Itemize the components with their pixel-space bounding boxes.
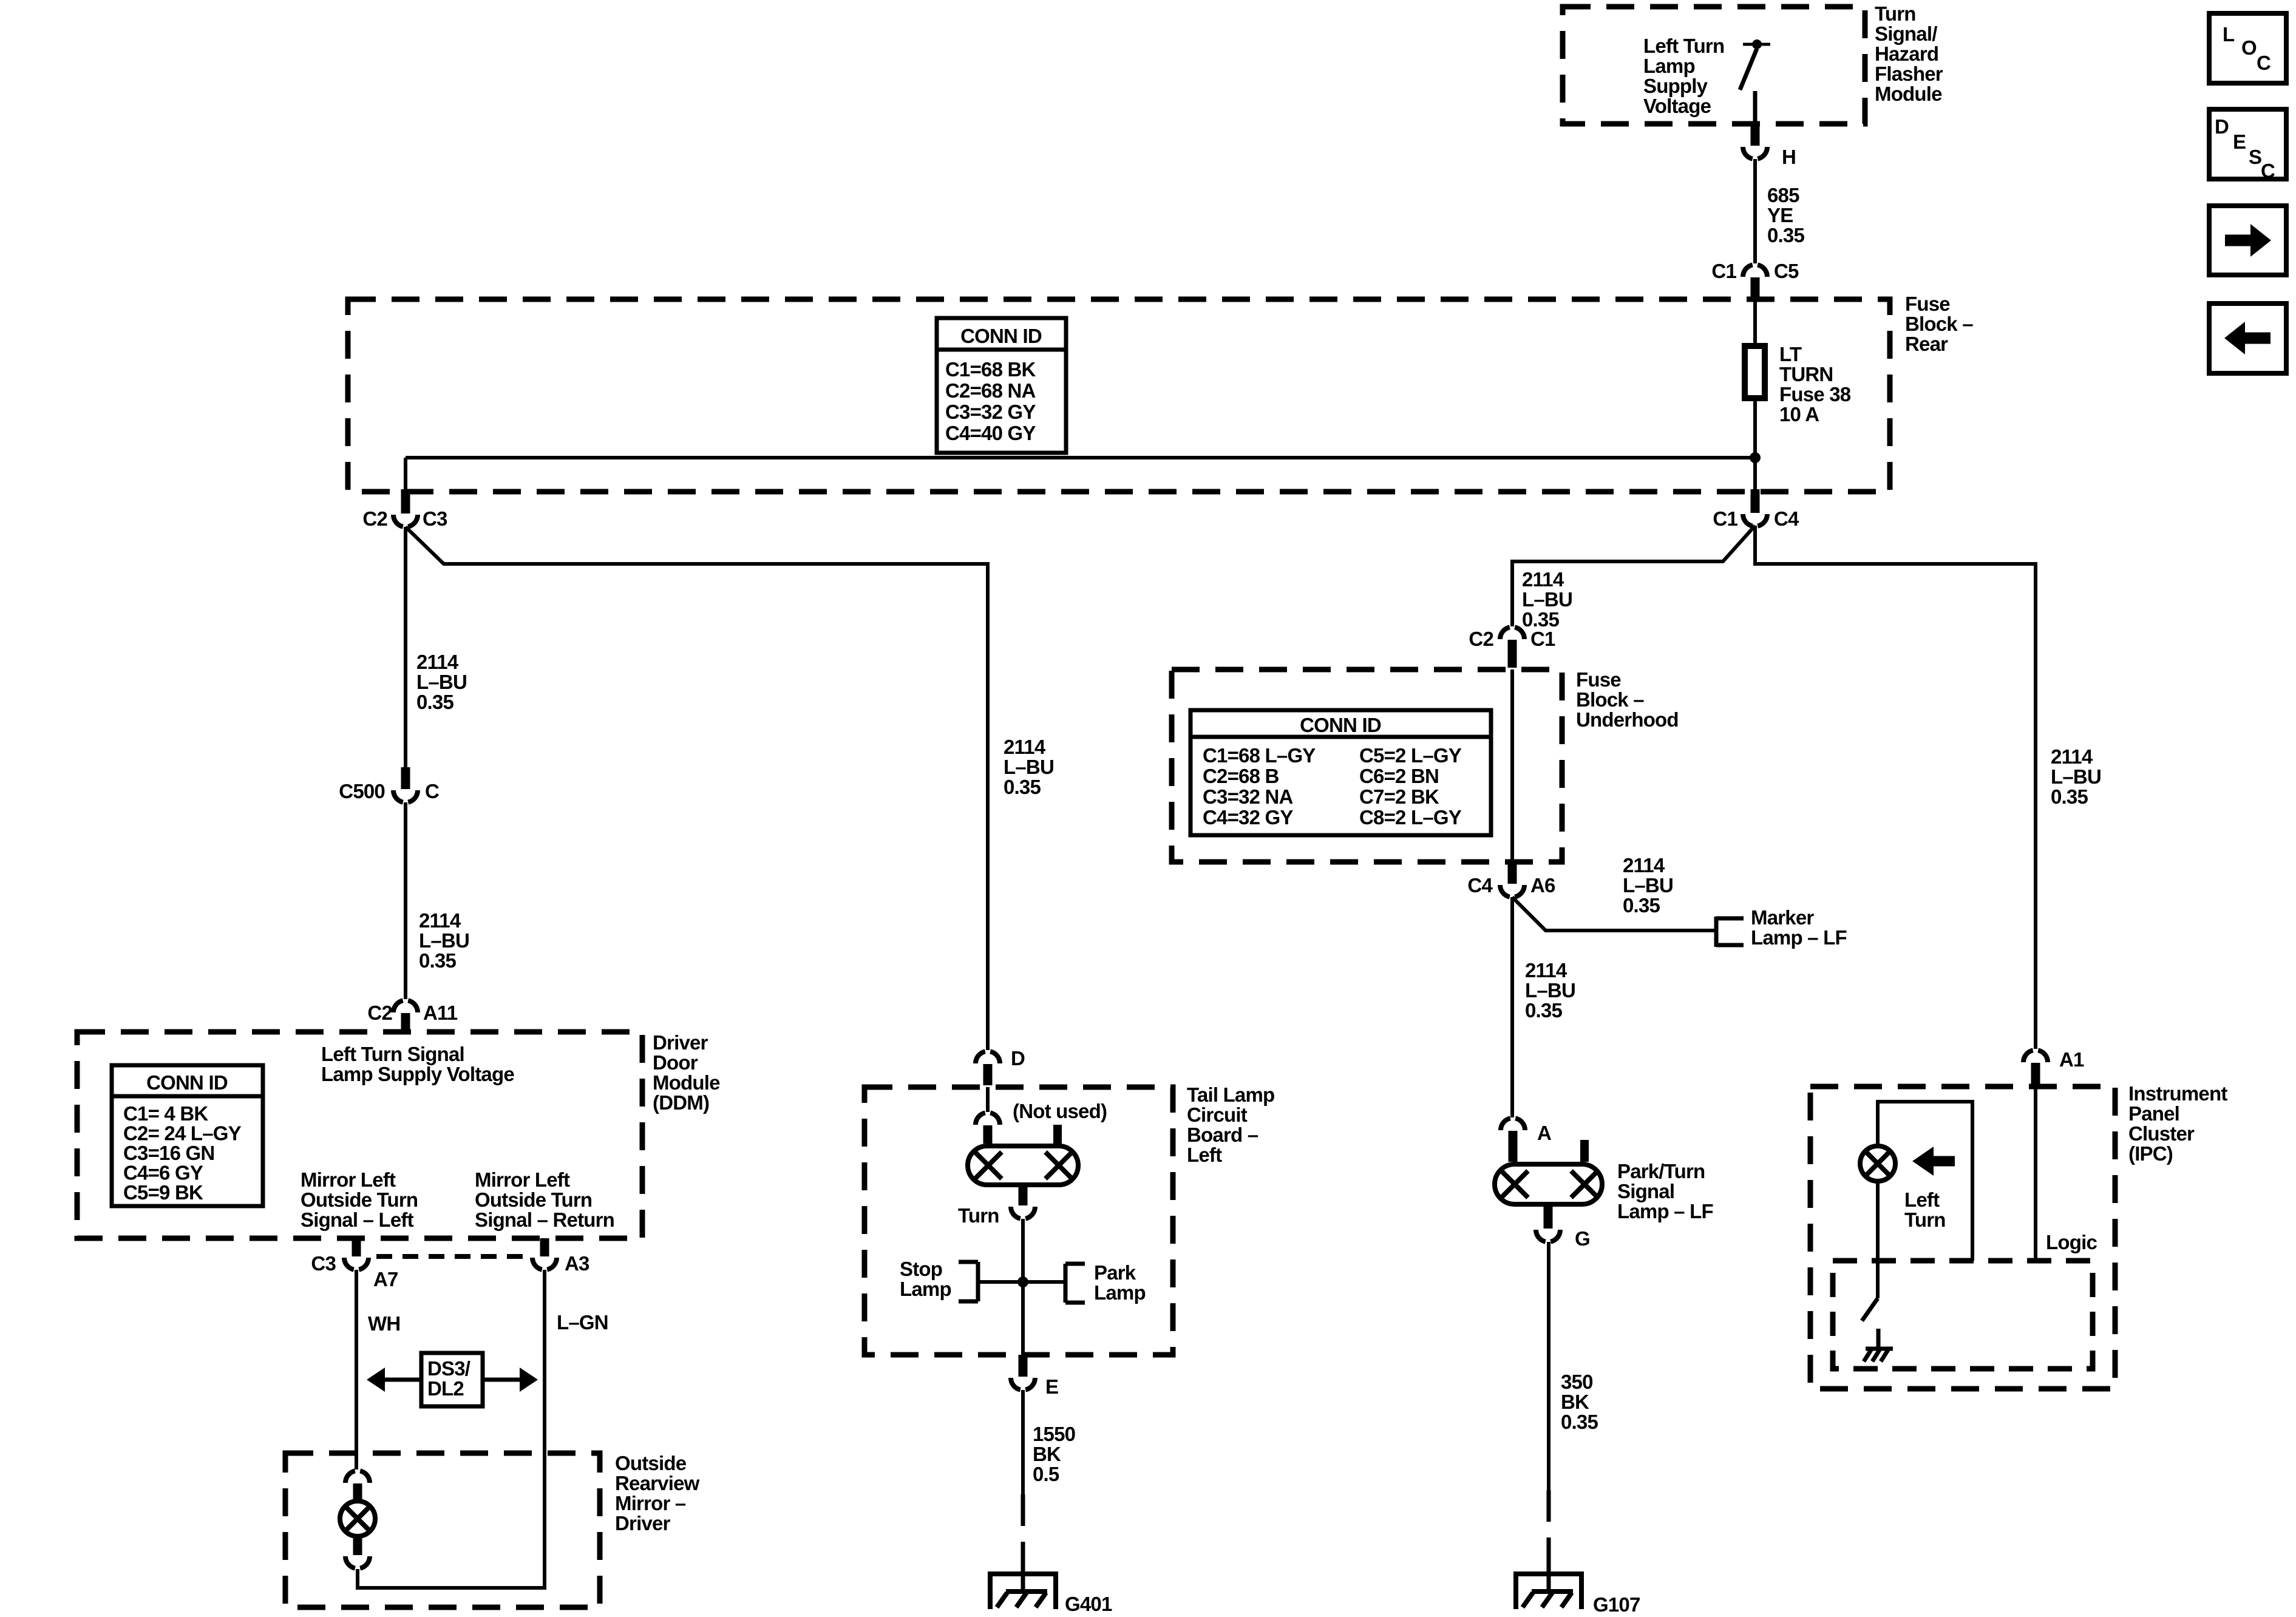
- IPC switch: [1876, 1181, 1880, 1298]
- legend forward arrow box: [2209, 206, 2286, 275]
- dashed line between C3 and A7/A3: [376, 1254, 529, 1259]
- connector G: [1536, 1230, 1560, 1242]
- svg-text:D: D: [1011, 1047, 1025, 1070]
- tail lamp circuit board box: [864, 1087, 1173, 1355]
- wire C1/C4 to underhood run: [1512, 526, 1755, 626]
- svg-text:2114: 2114: [1522, 568, 1564, 591]
- legend DESC box: [2209, 109, 2286, 179]
- svg-text:C2=68 B: C2=68 B: [1203, 765, 1279, 787]
- svg-text:Module: Module: [653, 1071, 720, 1094]
- svg-text:0.35: 0.35: [2051, 785, 2088, 808]
- svg-text:C1= 4 BK: C1= 4 BK: [123, 1102, 208, 1125]
- svg-text:Circuit: Circuit: [1187, 1103, 1248, 1126]
- svg-text:Block –: Block –: [1905, 313, 1973, 335]
- stop lamp tap: [978, 1280, 1023, 1284]
- svg-text:0.35: 0.35: [419, 949, 456, 972]
- svg-text:C4=40 GY: C4=40 GY: [945, 422, 1036, 444]
- connector C2/C1: [1500, 627, 1524, 639]
- DDM CONN ID table: [112, 1065, 263, 1206]
- svg-text:Lamp Supply Voltage: Lamp Supply Voltage: [321, 1063, 514, 1085]
- IPC internal ground: [1877, 1329, 1881, 1349]
- svg-text:685: 685: [1767, 184, 1799, 206]
- svg-text:Mirror –: Mirror –: [615, 1492, 686, 1514]
- svg-text:L: L: [2223, 23, 2235, 46]
- IPC left turn arrow: [1912, 1147, 1934, 1176]
- svg-text:0.5: 0.5: [1033, 1463, 1059, 1485]
- svg-text:C500: C500: [339, 780, 385, 802]
- svg-text:A: A: [1537, 1122, 1551, 1144]
- svg-text:BK: BK: [1033, 1443, 1061, 1465]
- svg-text:Tail Lamp: Tail Lamp: [1187, 1083, 1274, 1106]
- svg-text:2114: 2114: [1623, 854, 1665, 876]
- svg-text:0.35: 0.35: [1623, 894, 1660, 917]
- svg-text:C3: C3: [311, 1252, 336, 1275]
- svg-text:A11: A11: [423, 1002, 458, 1024]
- svg-text:C3=16 GN: C3=16 GN: [123, 1142, 214, 1164]
- svg-text:C2= 24 L–GY: C2= 24 L–GY: [123, 1122, 242, 1145]
- svg-text:C2: C2: [362, 507, 387, 530]
- svg-text:G107: G107: [1593, 1593, 1640, 1616]
- svg-text:Signal – Left: Signal – Left: [301, 1209, 414, 1231]
- svg-text:C3=32 NA: C3=32 NA: [1203, 785, 1293, 808]
- svg-text:C1: C1: [1711, 260, 1736, 282]
- svg-text:DS3/: DS3/: [427, 1357, 470, 1380]
- svg-text:2114: 2114: [416, 651, 459, 673]
- svg-text:BK: BK: [1561, 1391, 1589, 1413]
- svg-text:Park: Park: [1094, 1261, 1136, 1284]
- mirror turn signal bulb: [340, 1501, 375, 1536]
- svg-text:C: C: [425, 780, 439, 802]
- svg-text:CONN ID: CONN ID: [146, 1071, 228, 1094]
- svg-text:D: D: [2215, 115, 2229, 138]
- svg-text:Outside Turn: Outside Turn: [301, 1188, 418, 1211]
- wire fuse block internal horizontal: [406, 456, 1755, 459]
- svg-text:Signal – Return: Signal – Return: [475, 1209, 614, 1231]
- svg-text:C: C: [2261, 160, 2275, 182]
- IPC logic box: [1833, 1261, 2093, 1369]
- connector C2/A11: [393, 1000, 418, 1012]
- svg-text:Fuse: Fuse: [1576, 668, 1621, 691]
- legend back arrow box: [2209, 303, 2286, 373]
- svg-text:L–GN: L–GN: [557, 1311, 608, 1334]
- park/turn bottom pin: [1544, 1204, 1553, 1229]
- svg-text:Signal: Signal: [1617, 1180, 1674, 1202]
- wire D into board: [986, 1087, 990, 1112]
- svg-text:2114: 2114: [419, 909, 461, 932]
- svg-text:Outside Turn: Outside Turn: [475, 1188, 592, 1211]
- svg-text:Rear: Rear: [1905, 333, 1948, 355]
- svg-text:A7: A7: [373, 1268, 398, 1290]
- mirror bulb upper connector: [345, 1471, 370, 1483]
- svg-text:L–BU: L–BU: [416, 671, 467, 693]
- svg-text:Logic: Logic: [2046, 1231, 2097, 1253]
- svg-text:YE: YE: [1767, 204, 1793, 226]
- IPC lamp loop: [1878, 1102, 1972, 1261]
- svg-text:Instrument: Instrument: [2128, 1082, 2227, 1105]
- svg-text:L–BU: L–BU: [1525, 979, 1575, 1002]
- svg-text:(Not used): (Not used): [1013, 1100, 1107, 1122]
- svg-text:TURN: TURN: [1779, 363, 1833, 385]
- wire through underhood box: [1510, 670, 1514, 862]
- svg-text:10 A: 10 A: [1779, 403, 1819, 425]
- svg-text:Left: Left: [1904, 1188, 1940, 1211]
- svg-text:G401: G401: [1065, 1593, 1112, 1615]
- svg-text:C2: C2: [1469, 628, 1493, 650]
- svg-text:Module: Module: [1875, 83, 1942, 105]
- svg-text:2114: 2114: [1525, 959, 1567, 981]
- connector pin H: [1743, 147, 1767, 159]
- park lamp tap: [1023, 1280, 1065, 1284]
- svg-text:A3: A3: [565, 1252, 589, 1275]
- svg-text:Outside: Outside: [615, 1452, 687, 1474]
- svg-text:Hazard: Hazard: [1875, 42, 1938, 65]
- svg-text:L–BU: L–BU: [419, 929, 469, 952]
- svg-text:0.35: 0.35: [1525, 999, 1562, 1022]
- turn signal/hazard flasher module box: [1563, 7, 1865, 124]
- wire turn to junction: [1021, 1219, 1025, 1355]
- connector C1/C4: [1751, 489, 1760, 513]
- svg-text:Flasher: Flasher: [1875, 63, 1943, 85]
- wire fuse to junction: [1753, 398, 1757, 490]
- tail lamp bulb bottom pin: [1019, 1185, 1028, 1205]
- svg-text:L–BU: L–BU: [1522, 588, 1572, 611]
- marker lamp tap bracket: [1714, 917, 1719, 947]
- svg-text:C7=2 BK: C7=2 BK: [1359, 785, 1439, 808]
- svg-text:O: O: [2241, 36, 2257, 59]
- svg-text:Driver: Driver: [615, 1512, 671, 1534]
- fuse block - underhood box: [1172, 670, 1562, 862]
- tail lamp not used pin stub: [1053, 1125, 1062, 1144]
- instrument panel cluster box: [1810, 1086, 2115, 1389]
- flasher switch: [1752, 39, 1762, 49]
- svg-text:C2: C2: [367, 1002, 392, 1024]
- svg-text:C2=68 NA: C2=68 NA: [945, 379, 1036, 402]
- svg-text:C5: C5: [1774, 260, 1799, 282]
- svg-text:Supply: Supply: [1643, 75, 1708, 97]
- svg-text:E: E: [2233, 131, 2246, 153]
- svg-text:Mirror Left: Mirror Left: [301, 1168, 396, 1191]
- svg-text:Left Turn: Left Turn: [1643, 35, 1724, 57]
- wire A3 to mirror return (L-GN): [358, 1270, 545, 1588]
- svg-text:Turn: Turn: [958, 1204, 999, 1227]
- svg-text:Rearview: Rearview: [615, 1472, 700, 1494]
- wire 1550 E to ground: [1021, 1390, 1025, 1494]
- svg-text:Lamp: Lamp: [1094, 1281, 1146, 1304]
- svg-text:C6=2 BN: C6=2 BN: [1359, 765, 1439, 787]
- svg-text:0.35: 0.35: [1767, 224, 1804, 246]
- svg-text:C3=32 GY: C3=32 GY: [945, 401, 1036, 423]
- svg-text:0.35: 0.35: [1561, 1411, 1598, 1433]
- svg-text:2114: 2114: [2051, 745, 2093, 768]
- svg-text:Cluster: Cluster: [2128, 1122, 2195, 1145]
- wire C500 to C2/A11: [404, 802, 407, 999]
- svg-text:C1=68 L–GY: C1=68 L–GY: [1203, 744, 1316, 767]
- connector C4/A6: [1508, 862, 1517, 884]
- wire A6 to park/turn lamp: [1510, 897, 1514, 1117]
- svg-text:C3: C3: [423, 507, 447, 530]
- ground G401: [1021, 1556, 1025, 1592]
- svg-text:DL2: DL2: [427, 1377, 464, 1400]
- svg-text:L–BU: L–BU: [1623, 874, 1673, 897]
- svg-text:Lamp: Lamp: [900, 1278, 951, 1300]
- outside rearview mirror box: [285, 1453, 600, 1607]
- connector E: [1019, 1355, 1028, 1377]
- svg-text:0.35: 0.35: [1004, 776, 1041, 798]
- svg-text:Board –: Board –: [1187, 1124, 1258, 1146]
- wire 685 H to C1/C5: [1753, 159, 1757, 263]
- wire branch C2/C3 to tail lamp run: [406, 527, 988, 1050]
- svg-text:0.35: 0.35: [416, 691, 453, 713]
- svg-text:C1=68 BK: C1=68 BK: [945, 358, 1036, 381]
- junction in fuse block: [1750, 452, 1761, 463]
- svg-text:CONN ID: CONN ID: [1300, 714, 1381, 736]
- wire A1 to logic: [2034, 1086, 2037, 1261]
- svg-text:(DDM): (DDM): [653, 1091, 709, 1114]
- svg-text:C5=2 L–GY: C5=2 L–GY: [1359, 744, 1462, 767]
- fuse block - rear box: [348, 299, 1890, 492]
- svg-text:C4: C4: [1467, 874, 1493, 897]
- DS3/DL2 applique arrow: [385, 1378, 421, 1382]
- connector A1: [2023, 1050, 2048, 1062]
- svg-text:Voltage: Voltage: [1643, 95, 1711, 117]
- svg-text:S: S: [2249, 146, 2261, 168]
- connector D: [976, 1051, 1000, 1063]
- svg-text:Lamp – LF: Lamp – LF: [1751, 926, 1847, 949]
- svg-text:Lamp – LF: Lamp – LF: [1617, 1200, 1713, 1222]
- svg-text:A6: A6: [1530, 874, 1555, 897]
- svg-text:Marker: Marker: [1751, 906, 1814, 929]
- svg-text:C1: C1: [1530, 628, 1555, 650]
- svg-text:Left: Left: [1187, 1144, 1222, 1166]
- connector C2/C3: [401, 489, 410, 514]
- svg-text:G: G: [1575, 1227, 1590, 1250]
- svg-text:Left Turn Signal: Left Turn Signal: [321, 1043, 464, 1065]
- rear CONN ID table: [937, 318, 1066, 453]
- svg-text:Turn: Turn: [1875, 2, 1916, 25]
- connector C1/C5: [1743, 265, 1767, 277]
- svg-text:Lamp: Lamp: [1643, 55, 1695, 77]
- svg-text:H: H: [1782, 146, 1796, 168]
- connector A: [1501, 1118, 1525, 1130]
- park/turn signal lamp - LF bulb: [1495, 1164, 1602, 1204]
- svg-text:C4=32 GY: C4=32 GY: [1203, 806, 1293, 829]
- ground G107: [1547, 1556, 1551, 1592]
- svg-text:WH: WH: [368, 1312, 400, 1335]
- svg-text:C: C: [2257, 52, 2271, 74]
- svg-text:Underhood: Underhood: [1576, 708, 1679, 731]
- svg-text:C4=6 GY: C4=6 GY: [123, 1162, 203, 1184]
- connector C500/C: [401, 767, 410, 789]
- svg-text:Signal/: Signal/: [1875, 22, 1937, 45]
- connector A3: [540, 1238, 549, 1256]
- wire C2/C3 down to C500: [404, 527, 407, 767]
- svg-text:Fuse: Fuse: [1905, 293, 1950, 315]
- IPC left turn indicator bulb: [1860, 1146, 1895, 1181]
- svg-text:C5=9 BK: C5=9 BK: [123, 1181, 203, 1204]
- wire C3 to mirror (WH): [355, 1270, 358, 1470]
- wire C1/C4 to IPC run: [1755, 526, 2036, 1049]
- tail lamp dual filament bulb: [968, 1146, 1078, 1185]
- legend LOC box: [2209, 13, 2286, 83]
- park/turn not used pin stub: [1580, 1140, 1589, 1162]
- svg-text:Turn: Turn: [1904, 1209, 1946, 1231]
- underhood CONN ID table: [1190, 710, 1491, 835]
- wire 350 G to ground: [1547, 1242, 1550, 1490]
- svg-text:Park/Turn: Park/Turn: [1617, 1160, 1705, 1182]
- connector C3/A7: [352, 1238, 361, 1256]
- svg-text:E: E: [1045, 1375, 1058, 1398]
- svg-text:C4: C4: [1774, 507, 1799, 530]
- tail lamp junction: [1017, 1276, 1028, 1287]
- svg-text:350: 350: [1561, 1371, 1593, 1393]
- svg-text:CONN ID: CONN ID: [960, 325, 1042, 347]
- wire module to H: [1751, 124, 1760, 146]
- connector Turn: [1011, 1207, 1035, 1219]
- svg-text:1550: 1550: [1033, 1423, 1075, 1445]
- wire C1/C5 into fuse: [1753, 299, 1757, 344]
- tail lamp bulb connector: [976, 1113, 1000, 1125]
- fuse LT TURN Fuse 38 10A: [1745, 346, 1765, 398]
- svg-text:L–BU: L–BU: [2051, 765, 2101, 788]
- svg-text:LT: LT: [1779, 343, 1802, 365]
- svg-text:C1: C1: [1713, 507, 1737, 530]
- svg-text:Door: Door: [653, 1051, 698, 1074]
- driver door module box: [77, 1032, 642, 1238]
- svg-text:Panel: Panel: [2128, 1102, 2179, 1125]
- wire A6 branch to marker lamp: [1512, 897, 1714, 931]
- svg-text:Stop: Stop: [900, 1258, 942, 1280]
- svg-text:Fuse 38: Fuse 38: [1779, 383, 1851, 405]
- mirror bulb lower connector: [353, 1536, 362, 1555]
- svg-text:L–BU: L–BU: [1004, 756, 1054, 778]
- svg-text:A1: A1: [2059, 1048, 2084, 1071]
- svg-text:Driver: Driver: [653, 1031, 708, 1054]
- svg-text:Block –: Block –: [1576, 688, 1644, 711]
- svg-text:(IPC): (IPC): [2128, 1142, 2173, 1165]
- svg-text:2114: 2114: [1004, 736, 1046, 758]
- svg-text:Mirror Left: Mirror Left: [475, 1168, 570, 1191]
- svg-text:C8=2 L–GY: C8=2 L–GY: [1359, 806, 1462, 829]
